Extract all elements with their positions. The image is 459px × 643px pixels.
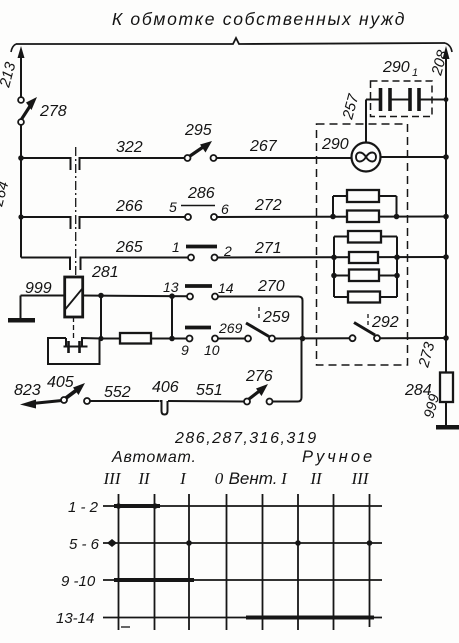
svg-text:278: 278 xyxy=(39,103,67,120)
svg-text:266: 266 xyxy=(115,198,143,215)
wire 999 right xyxy=(445,402,447,425)
wire from relay junction down xyxy=(100,296,102,339)
svg-text:286: 286 xyxy=(187,185,215,202)
svg-text:К обмотке собственных нужд: К обмотке собственных нужд xyxy=(112,9,406,29)
switch 278 xyxy=(18,97,24,103)
svg-text:13: 13 xyxy=(163,279,179,295)
svg-text:272: 272 xyxy=(254,197,282,214)
svg-text:271: 271 xyxy=(254,240,282,257)
svg-text:II: II xyxy=(309,469,323,488)
svg-text:Автомат.: Автомат. xyxy=(111,449,197,466)
switch 405 (823 line) xyxy=(61,397,67,403)
ground (right) xyxy=(436,425,459,430)
switch 259 xyxy=(245,336,251,342)
switch 276 xyxy=(244,399,250,405)
top bus wire xyxy=(16,38,445,44)
node at right bus / 267 xyxy=(443,154,449,160)
wire 267 xyxy=(217,157,352,159)
ground (left) xyxy=(8,318,35,323)
svg-text:286,287,316,319: 286,287,316,319 xyxy=(174,430,318,447)
wire 259 to 292 xyxy=(275,337,350,339)
svg-text:213: 213 xyxy=(0,60,20,90)
capacitor 405 loop xyxy=(48,338,100,364)
svg-text:1: 1 xyxy=(172,239,180,255)
svg-text:6: 6 xyxy=(221,201,229,217)
left bus wire 264 xyxy=(20,125,22,258)
svg-text:273: 273 xyxy=(415,340,438,370)
svg-text:276: 276 xyxy=(245,368,273,385)
svg-text:281: 281 xyxy=(91,264,119,281)
node: bus / wire322 xyxy=(18,155,24,161)
svg-text:322: 322 xyxy=(116,139,143,156)
table column lines xyxy=(118,494,120,630)
svg-text:9: 9 xyxy=(181,342,189,358)
wire 266 xyxy=(21,216,71,218)
wire 272 xyxy=(217,216,446,219)
switch 295 xyxy=(185,155,191,161)
resistor bank 2 (4 resistors) xyxy=(333,237,335,298)
svg-text:551: 551 xyxy=(196,382,223,399)
svg-text:13-14: 13-14 xyxy=(56,610,94,627)
mechanical dash-dot link xyxy=(75,147,77,277)
arrow 208 / right bus top xyxy=(445,58,447,100)
wire 257 vertical xyxy=(365,100,367,143)
svg-text:823: 823 xyxy=(14,382,41,399)
capacitor C2 xyxy=(408,88,412,111)
connector 406 notch xyxy=(160,401,168,415)
wire lamp to right bus xyxy=(381,156,447,158)
svg-text:I: I xyxy=(280,469,288,488)
svg-text:269: 269 xyxy=(218,320,243,336)
relay 281 xyxy=(65,277,83,317)
capacitor 405 plates xyxy=(67,341,70,353)
wire 999 left + ground xyxy=(21,295,65,297)
wire 9-row with resistor 406 xyxy=(101,338,187,340)
wire 271 xyxy=(218,256,447,259)
column headers xyxy=(103,469,370,488)
svg-text:Вент.: Вент. xyxy=(229,469,278,488)
svg-text:257: 257 xyxy=(339,92,362,122)
svg-text:5 - 6: 5 - 6 xyxy=(69,536,100,553)
svg-text:270: 270 xyxy=(257,278,285,295)
right bus wire xyxy=(445,100,447,373)
wire 265 xyxy=(21,257,70,259)
wire 10 to switch 259 xyxy=(218,338,245,340)
lamp 290 xyxy=(352,143,381,172)
inner dashed box (group 290/292 resistors) xyxy=(317,124,408,365)
wire 551 xyxy=(168,400,244,403)
svg-text:290: 290 xyxy=(321,136,349,153)
wire relay to contacts xyxy=(83,295,187,298)
svg-text:5: 5 xyxy=(169,199,177,215)
wire 552 xyxy=(90,400,159,402)
svg-text:405: 405 xyxy=(47,374,74,391)
svg-text:I: I xyxy=(179,469,187,488)
svg-text:290: 290 xyxy=(382,59,410,76)
svg-text:II: II xyxy=(137,469,151,488)
svg-text:295: 295 xyxy=(184,122,212,139)
top bus left end hook xyxy=(11,44,16,52)
svg-text:264: 264 xyxy=(0,179,12,209)
svg-text:265: 265 xyxy=(115,239,143,256)
svg-text:292: 292 xyxy=(371,314,399,331)
svg-text:1 - 2: 1 - 2 xyxy=(68,499,99,516)
capacitor C1 xyxy=(366,99,380,101)
capacitor group 290_1 dashed box xyxy=(371,81,433,117)
svg-text:III: III xyxy=(103,469,122,488)
svg-text:0: 0 xyxy=(215,469,224,488)
wire 270 xyxy=(218,297,303,339)
resistor 406 xyxy=(120,333,151,344)
svg-text:406: 406 xyxy=(152,379,179,396)
svg-text:208: 208 xyxy=(428,48,451,78)
wire 276 up to 259 row xyxy=(273,339,302,402)
svg-text:552: 552 xyxy=(104,384,131,401)
svg-text:999: 999 xyxy=(25,280,52,297)
svg-text:267: 267 xyxy=(249,138,278,155)
svg-text:III: III xyxy=(351,469,370,488)
switch 292 xyxy=(350,335,356,341)
resistor bank 1 (2 resistors) xyxy=(332,196,334,217)
wire 292 to right bus xyxy=(380,337,446,339)
svg-text:Ручное: Ручное xyxy=(302,448,375,466)
vertical link 13 to 9 row xyxy=(171,296,173,338)
svg-text:10: 10 xyxy=(204,342,220,358)
arrow 213 to top bus xyxy=(20,57,22,97)
wire 322 xyxy=(21,157,71,159)
top bus right end hook xyxy=(445,43,452,52)
svg-text:14: 14 xyxy=(218,280,234,296)
svg-text:1: 1 xyxy=(412,67,418,79)
svg-text:259: 259 xyxy=(262,309,290,326)
svg-text:9 -10: 9 -10 xyxy=(61,573,96,590)
resistor 284 xyxy=(440,373,453,403)
small mark below xyxy=(121,626,130,628)
